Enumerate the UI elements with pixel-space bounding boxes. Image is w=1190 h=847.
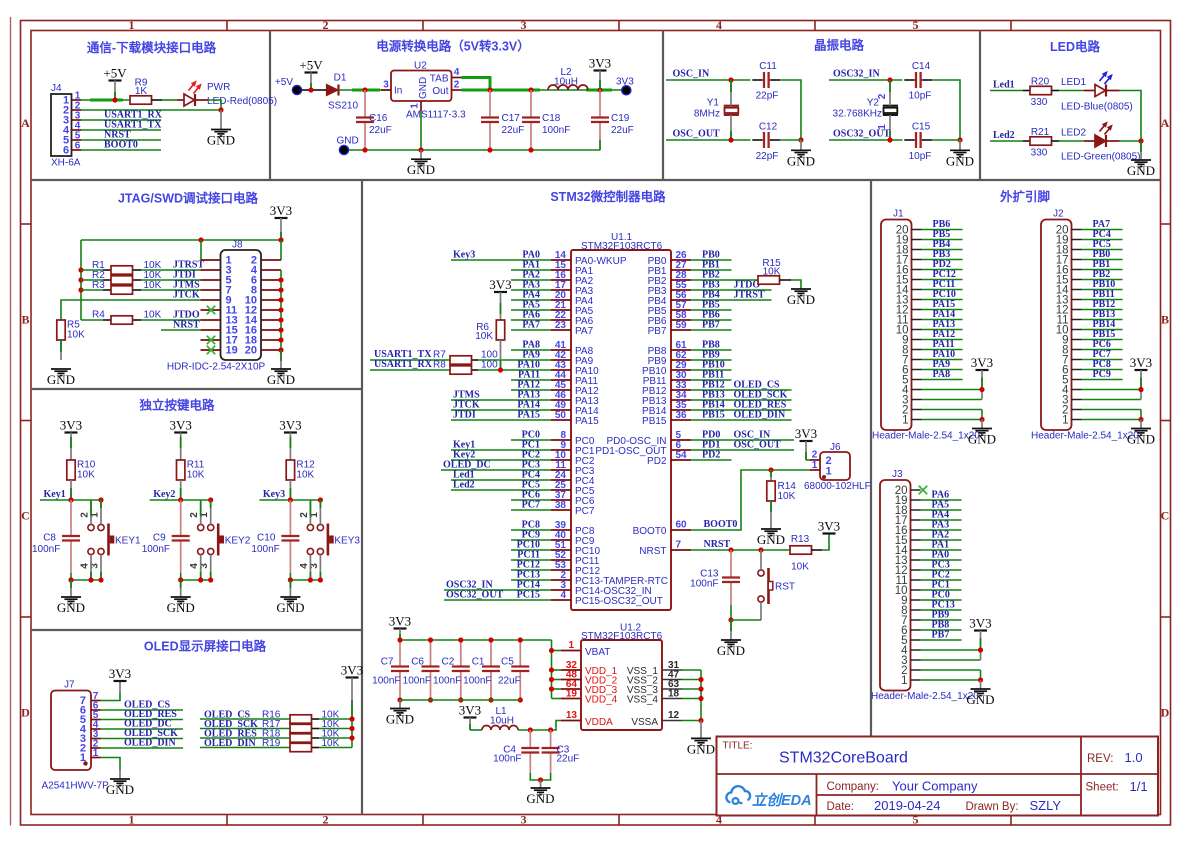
wire switch pin3 down bbox=[210, 555, 212, 580]
wire to J8 pin2 bbox=[280, 240, 282, 260]
wire net BOOT0 bbox=[81, 149, 161, 151]
wire PB0 bbox=[691, 259, 732, 261]
diode D1 SS210 bbox=[327, 73, 359, 112]
U1.1 pin 3 (PC14-OSC32_IN) bbox=[551, 580, 652, 597]
title block Company bbox=[827, 779, 979, 794]
svg-text:PA15: PA15 bbox=[517, 410, 540, 421]
U1.2 pin 63 (VSS_3) bbox=[627, 679, 682, 696]
U1.2 pin 12 (VSSA) bbox=[631, 710, 682, 728]
junction bbox=[498, 367, 503, 372]
junction bbox=[78, 287, 83, 292]
ground bbox=[1127, 160, 1155, 178]
svg-text:VSS_4: VSS_4 bbox=[627, 695, 659, 706]
svg-text:100nF: 100nF bbox=[463, 676, 491, 687]
capacitor C7 bbox=[372, 640, 409, 700]
J7 pin 3 bbox=[80, 729, 101, 745]
svg-text:VDDA: VDDA bbox=[585, 717, 613, 728]
wire VSS bbox=[682, 679, 701, 681]
svg-text:3V3: 3V3 bbox=[971, 355, 993, 370]
svg-text:PA8: PA8 bbox=[933, 369, 951, 380]
svg-text:PB7: PB7 bbox=[702, 320, 720, 331]
J1 pin 11 bbox=[897, 314, 922, 326]
svg-text:+5V: +5V bbox=[299, 58, 323, 73]
wire OLED_DIN to R19 bbox=[200, 747, 352, 749]
svg-text:电源转换电路（5V转3.3V）: 电源转换电路（5V转3.3V） bbox=[376, 39, 530, 54]
microcontroller U1.1 STM32F103RCT6 bbox=[571, 232, 671, 610]
svg-text:3V3: 3V3 bbox=[270, 203, 292, 218]
wire OSC_OUT bbox=[666, 139, 751, 141]
svg-text:GND: GND bbox=[526, 791, 554, 806]
connector J3 Header-Male-2.54_1x20 bbox=[871, 469, 979, 702]
capacitor C6 bbox=[403, 640, 440, 700]
resistor R14 bbox=[767, 481, 796, 502]
wire PB15 bbox=[1082, 339, 1123, 341]
svg-text:60: 60 bbox=[676, 520, 688, 531]
svg-text:10K: 10K bbox=[778, 491, 796, 502]
wire PC15 bbox=[444, 599, 551, 601]
wire PB13 bbox=[1082, 319, 1123, 321]
voltage regulator U2 AMS1117-3.3 bbox=[391, 61, 466, 121]
svg-text:GND: GND bbox=[968, 432, 996, 447]
U1.1 pin 36 (PB15) bbox=[642, 410, 691, 427]
svg-text:1: 1 bbox=[129, 18, 135, 32]
junction bbox=[278, 307, 283, 312]
svg-text:2: 2 bbox=[323, 18, 329, 32]
wire OLED_RES to R18 bbox=[200, 737, 352, 739]
J1 pin 13 bbox=[896, 294, 922, 306]
svg-text:R13: R13 bbox=[791, 534, 810, 545]
svg-text:SZLY: SZLY bbox=[1030, 798, 1062, 813]
svg-text:J7: J7 bbox=[64, 680, 75, 691]
svg-text:Drawn By:: Drawn By: bbox=[966, 801, 1019, 813]
wire OLED_SCK to R17 bbox=[200, 728, 352, 730]
svg-text:38: 38 bbox=[555, 500, 567, 511]
svg-text:5: 5 bbox=[913, 18, 919, 32]
J8 pin 16 bbox=[245, 325, 281, 337]
junction bbox=[979, 417, 984, 422]
J4 pin 6 bbox=[63, 141, 81, 157]
svg-text:Out: Out bbox=[432, 86, 448, 97]
svg-text:R20: R20 bbox=[1031, 76, 1050, 87]
svg-text:50: 50 bbox=[555, 410, 567, 421]
wire GND link bbox=[980, 670, 982, 680]
wire Y1 top pin bbox=[730, 80, 732, 106]
U1.1 pin 37 (PC6) bbox=[551, 490, 595, 507]
wire bbox=[289, 573, 291, 580]
svg-text:独立按键电路: 独立按键电路 bbox=[138, 398, 215, 413]
J2 pin 11 bbox=[1057, 314, 1082, 326]
junction bbox=[538, 777, 543, 782]
resistor R17 bbox=[262, 719, 340, 733]
J2 pin 1 bbox=[1062, 414, 1081, 426]
J1 pin 1 bbox=[902, 414, 921, 426]
svg-text:STM32F103RCT6: STM32F103RCT6 bbox=[581, 631, 663, 642]
svg-text:LED-Red(0805): LED-Red(0805) bbox=[207, 96, 277, 107]
junction bbox=[362, 87, 367, 92]
wire R9 to LED bbox=[152, 99, 185, 101]
svg-text:22uF: 22uF bbox=[611, 125, 634, 136]
U1.1 pin 20 (PA4) bbox=[551, 290, 594, 307]
junction bbox=[1138, 138, 1143, 143]
svg-text:NRST: NRST bbox=[704, 539, 731, 550]
svg-text:100nF: 100nF bbox=[142, 544, 170, 555]
svg-text:Led1: Led1 bbox=[993, 80, 1015, 91]
wire Led2 to R21 bbox=[990, 140, 1030, 142]
wire net NRST bbox=[81, 139, 161, 141]
inductor L1 10uH bbox=[482, 706, 518, 730]
wire pullup rail bbox=[351, 719, 353, 748]
wire PC4 bbox=[1082, 239, 1123, 241]
svg-text:4: 4 bbox=[560, 590, 566, 601]
wire PA8 bbox=[922, 379, 963, 381]
J4 pin 4 bbox=[63, 121, 81, 137]
wire PC6 bbox=[1082, 349, 1123, 351]
connector J7 A2541HWV-7P bbox=[42, 680, 110, 792]
wire bottom bbox=[71, 579, 101, 581]
wire PA3 bbox=[511, 289, 551, 291]
wire net USART1_RX bbox=[81, 119, 161, 121]
ground bbox=[106, 779, 134, 797]
svg-text:1: 1 bbox=[902, 414, 908, 426]
J2 pin 9 bbox=[1062, 334, 1081, 346]
J8 pin 8 bbox=[251, 285, 281, 297]
svg-text:Sheet:: Sheet: bbox=[1086, 782, 1119, 794]
wire J7.1 to GND bbox=[101, 758, 121, 771]
J8 pin 11 bbox=[201, 305, 238, 317]
svg-text:68000-102HLF: 68000-102HLF bbox=[804, 481, 871, 492]
svg-text:2: 2 bbox=[877, 93, 888, 99]
svg-text:A2541HWV-7P: A2541HWV-7P bbox=[42, 780, 110, 791]
svg-text:PC7: PC7 bbox=[522, 500, 540, 511]
J7 pin 2 bbox=[80, 739, 101, 755]
svg-text:C5: C5 bbox=[501, 657, 514, 668]
J2 pin 6 bbox=[1062, 364, 1081, 376]
J8 pin 9 bbox=[201, 295, 232, 307]
resistor R11 bbox=[177, 460, 205, 481]
svg-text:D: D bbox=[1161, 706, 1170, 720]
bold wire segment bbox=[586, 89, 612, 92]
wire R14 to GND bbox=[770, 501, 772, 529]
svg-text:C11: C11 bbox=[759, 61, 777, 72]
wire bbox=[731, 619, 761, 621]
switch RST bbox=[758, 568, 795, 604]
wire GND link bbox=[981, 410, 983, 420]
junction bbox=[208, 577, 213, 582]
junction bbox=[198, 577, 203, 582]
J8 pin 10 bbox=[245, 295, 281, 307]
wire NRST bbox=[691, 549, 790, 551]
wire 3V3 to R6 bbox=[500, 292, 502, 320]
power flag 3V3 bbox=[818, 519, 840, 534]
svg-text:J2: J2 bbox=[1053, 209, 1064, 220]
wire to GND bbox=[289, 580, 291, 597]
wire PA8 bbox=[511, 349, 551, 351]
svg-text:STM32微控制器电路: STM32微控制器电路 bbox=[550, 189, 666, 204]
svg-text:C2: C2 bbox=[442, 657, 455, 668]
svg-text:1: 1 bbox=[93, 748, 99, 759]
svg-text:GND: GND bbox=[337, 136, 359, 147]
ground bbox=[757, 529, 785, 547]
svg-text:B: B bbox=[21, 313, 29, 327]
capacitor C8 bbox=[32, 500, 80, 573]
svg-text:OSC_IN: OSC_IN bbox=[673, 69, 710, 80]
wire PC10 bbox=[922, 299, 963, 301]
svg-text:GND: GND bbox=[757, 532, 785, 547]
svg-text:3V3: 3V3 bbox=[489, 277, 511, 292]
svg-text:PD2: PD2 bbox=[702, 450, 720, 461]
title block REV 1.0 bbox=[1087, 750, 1143, 765]
U1.1 pin 15 (PA1) bbox=[551, 260, 594, 277]
junction bbox=[78, 267, 83, 272]
wire PC1 bbox=[451, 449, 551, 451]
bold wire segment bbox=[90, 99, 123, 102]
wire 3V3 to R11 bbox=[180, 433, 182, 461]
port 3V3 bbox=[616, 77, 634, 95]
junction bbox=[349, 716, 354, 721]
resistor R7 bbox=[433, 350, 498, 365]
wire PA13 bbox=[922, 329, 963, 331]
J4 pin 5 bbox=[63, 131, 81, 147]
U1.1 pin 43 (PA10) bbox=[551, 360, 599, 377]
title block Sheet bbox=[1086, 779, 1148, 794]
wire OLED_CS to R16 bbox=[200, 718, 352, 720]
J1 pin 4 bbox=[902, 384, 921, 396]
capacitor C14 bbox=[904, 61, 932, 102]
svg-text:GND: GND bbox=[717, 643, 745, 658]
svg-text:D1: D1 bbox=[334, 73, 347, 84]
junction bbox=[728, 77, 733, 82]
svg-text:4: 4 bbox=[454, 67, 460, 78]
power flag 3V3 bbox=[270, 203, 292, 218]
capacitor C5 bbox=[498, 640, 529, 700]
wire JTMS pullup bbox=[81, 289, 201, 291]
svg-text:BOOT0: BOOT0 bbox=[104, 140, 138, 151]
LED1 (LED-Blue 0805) bbox=[1095, 71, 1113, 97]
junction bbox=[349, 735, 354, 740]
svg-text:J6: J6 bbox=[830, 442, 841, 453]
wire 3V3 flag stem bbox=[280, 218, 282, 240]
J1 pin 2 bbox=[902, 404, 921, 416]
junction bbox=[278, 277, 283, 282]
svg-text:KEY2: KEY2 bbox=[225, 536, 251, 547]
wire Key1 row bbox=[40, 499, 101, 501]
wire PB14 bbox=[1082, 329, 1123, 331]
ground bbox=[787, 289, 815, 307]
svg-text:3V3: 3V3 bbox=[969, 616, 991, 631]
J1 pin 16 bbox=[896, 264, 922, 276]
J8 pin 15 bbox=[201, 325, 238, 337]
U1.2 pin 32 (VDD_1) bbox=[561, 660, 618, 677]
U1.2 pin 47 (VSS_2) bbox=[627, 670, 682, 687]
wire bbox=[806, 459, 810, 461]
wire R6 to PA10 bbox=[500, 340, 502, 370]
wire GND stem bbox=[981, 420, 983, 429]
J3 pin 6 bbox=[901, 625, 920, 637]
wire C14 to GND net bbox=[933, 80, 961, 140]
junction bbox=[728, 617, 733, 622]
wire to GND bbox=[730, 620, 732, 640]
svg-text:XH-6A: XH-6A bbox=[51, 158, 81, 169]
wire PC12 bbox=[922, 279, 963, 281]
wire PC6 bbox=[511, 499, 551, 501]
wire GND stem bbox=[700, 721, 702, 739]
svg-text:REV:: REV: bbox=[1087, 753, 1113, 765]
ground bbox=[47, 369, 75, 387]
junction bbox=[548, 727, 553, 732]
svg-text:TAB: TAB bbox=[430, 74, 449, 85]
wire PC8 bbox=[1082, 369, 1123, 371]
svg-text:23: 23 bbox=[555, 320, 567, 331]
svg-text:LED电路: LED电路 bbox=[1050, 39, 1101, 54]
wire PA0 bbox=[921, 559, 962, 561]
wire bbox=[552, 679, 562, 681]
svg-text:1: 1 bbox=[901, 675, 907, 687]
junction bbox=[528, 87, 533, 92]
wire net GND (J4.2) bbox=[81, 109, 221, 111]
svg-text:18: 18 bbox=[668, 689, 680, 700]
svg-text:Key3: Key3 bbox=[263, 489, 285, 500]
wire VSS bbox=[682, 698, 701, 700]
wire PB4 bbox=[691, 299, 772, 301]
wire bottom bbox=[290, 579, 320, 581]
junction bbox=[68, 577, 73, 582]
wire bbox=[552, 688, 562, 690]
wire PC11 bbox=[511, 559, 551, 561]
crystal Y1 8MHz bbox=[694, 98, 739, 120]
no-connect X bbox=[207, 306, 215, 314]
wire JTRST pullup bbox=[81, 269, 201, 271]
capacitor C19 bbox=[591, 90, 634, 151]
junction bbox=[518, 697, 523, 702]
U1.1 pin 8 (PC0) bbox=[551, 430, 595, 447]
switch KEY3 bbox=[307, 524, 360, 556]
capacitor C10 bbox=[251, 500, 299, 573]
svg-text:32.768KHz: 32.768KHz bbox=[833, 109, 882, 120]
U1.1 pin 16 (PA2) bbox=[551, 270, 594, 287]
wire PA12 bbox=[511, 389, 551, 391]
wire left pullup rail bbox=[80, 240, 82, 320]
svg-text:JTAG/SWD调试接口电路: JTAG/SWD调试接口电路 bbox=[118, 191, 259, 206]
J6 pin 2 bbox=[810, 450, 832, 467]
wire to GND bbox=[180, 580, 182, 597]
svg-text:Led2: Led2 bbox=[993, 130, 1015, 141]
svg-text:10K: 10K bbox=[187, 470, 205, 481]
resistor R6 bbox=[475, 320, 504, 342]
svg-text:PD2: PD2 bbox=[647, 456, 667, 467]
title block Date bbox=[827, 798, 1062, 813]
svg-text:1: 1 bbox=[568, 640, 574, 651]
U1.1 pin 35 (PB14) bbox=[642, 400, 691, 417]
wire 3V3 stem bbox=[119, 681, 121, 692]
ground bbox=[787, 150, 815, 168]
wire PA4 bbox=[921, 519, 962, 521]
svg-text:OLED_DIN: OLED_DIN bbox=[124, 738, 176, 749]
svg-text:1: 1 bbox=[1062, 414, 1068, 426]
svg-text:VBAT: VBAT bbox=[585, 647, 610, 658]
wire PA13 bbox=[451, 399, 551, 401]
ground bbox=[687, 738, 715, 756]
bold wire segment bbox=[462, 89, 541, 92]
wire PC2 bbox=[921, 579, 962, 581]
wire J1 pin 4 bbox=[922, 389, 983, 391]
svg-text:22pF: 22pF bbox=[756, 151, 779, 162]
resistor R18 bbox=[262, 729, 340, 743]
wire PA15 bbox=[451, 419, 551, 421]
junction bbox=[68, 497, 73, 502]
svg-text:PB15: PB15 bbox=[642, 416, 667, 427]
wire PC0 bbox=[511, 439, 551, 441]
svg-text:C: C bbox=[1161, 509, 1170, 523]
J7 pin 5 bbox=[80, 710, 101, 726]
junction bbox=[488, 697, 493, 702]
wire J8 GND rail bbox=[280, 270, 282, 350]
wire GND stem bbox=[220, 110, 222, 129]
J8 pin 17 bbox=[201, 335, 238, 347]
svg-text:AMS1117-3.3: AMS1117-3.3 bbox=[406, 110, 466, 121]
wire PB12 bbox=[1082, 309, 1123, 311]
wire USART1_RX bbox=[370, 369, 551, 371]
wire RST to GND net bbox=[760, 602, 762, 620]
svg-text:GND: GND bbox=[1127, 163, 1155, 178]
wire PC5 bbox=[451, 489, 551, 491]
svg-text:外扩引脚: 外扩引脚 bbox=[999, 189, 1050, 204]
wire Led1 to R20 bbox=[990, 90, 1030, 92]
svg-text:晶振电路: 晶振电路 bbox=[814, 38, 865, 53]
junction bbox=[88, 577, 93, 582]
resistor R5 bbox=[57, 320, 85, 341]
power flag 3V3 bbox=[109, 666, 131, 681]
wire 3V3 net (U2.Out to port) bbox=[462, 89, 622, 91]
svg-text:6: 6 bbox=[75, 141, 81, 152]
U1.1 pin 22 (PA6) bbox=[551, 310, 594, 327]
wire GND stem bbox=[800, 140, 802, 150]
wire J2 pin 4 bbox=[1082, 389, 1142, 391]
svg-text:GND: GND bbox=[47, 372, 75, 387]
J1 pin 14 bbox=[896, 284, 922, 296]
J2 pin 15 bbox=[1056, 274, 1082, 286]
wire to switch pin1 bbox=[319, 500, 321, 524]
power flag 3V3 bbox=[459, 703, 481, 718]
svg-text:100nF: 100nF bbox=[403, 676, 431, 687]
wire net +5V (J4.1 to R9) bbox=[81, 99, 130, 101]
J8 pin 6 bbox=[251, 275, 281, 287]
svg-text:Led2: Led2 bbox=[453, 480, 475, 491]
wire PA0 bbox=[451, 259, 551, 261]
resistor R13 bbox=[790, 534, 812, 573]
svg-text:3: 3 bbox=[521, 18, 527, 32]
wire PA14 bbox=[451, 409, 551, 411]
wire J1 pin 3 bbox=[922, 399, 983, 401]
power flag 3V3 bbox=[279, 418, 301, 433]
wire bbox=[730, 605, 732, 620]
J3 pin 19 bbox=[895, 495, 921, 507]
wire JTDI pullup bbox=[81, 279, 201, 281]
svg-text:GND: GND bbox=[207, 133, 235, 148]
svg-text:10K: 10K bbox=[77, 470, 95, 481]
svg-text:JTRST: JTRST bbox=[734, 290, 765, 301]
wire caps to GND bbox=[530, 773, 550, 780]
U1.1 pin 54 (PD2) bbox=[647, 450, 691, 467]
junction bbox=[362, 147, 367, 152]
svg-text:U2: U2 bbox=[414, 61, 427, 72]
svg-text:GND: GND bbox=[687, 741, 715, 756]
port +5V bbox=[275, 77, 302, 95]
wire PD2 bbox=[922, 269, 963, 271]
svg-text:1.0: 1.0 bbox=[1125, 750, 1143, 765]
svg-text:100: 100 bbox=[481, 360, 498, 371]
resistor R8 bbox=[433, 360, 498, 375]
svg-text:C17: C17 bbox=[502, 113, 521, 124]
